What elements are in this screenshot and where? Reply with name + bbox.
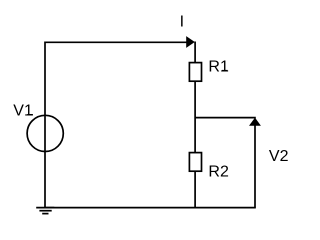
svg-text:R2: R2 [208,163,229,180]
svg-text:R1: R1 [208,58,229,75]
svg-text:V1: V1 [13,103,33,120]
svg-text:V2: V2 [269,148,289,165]
svg-text:I: I [180,14,184,31]
